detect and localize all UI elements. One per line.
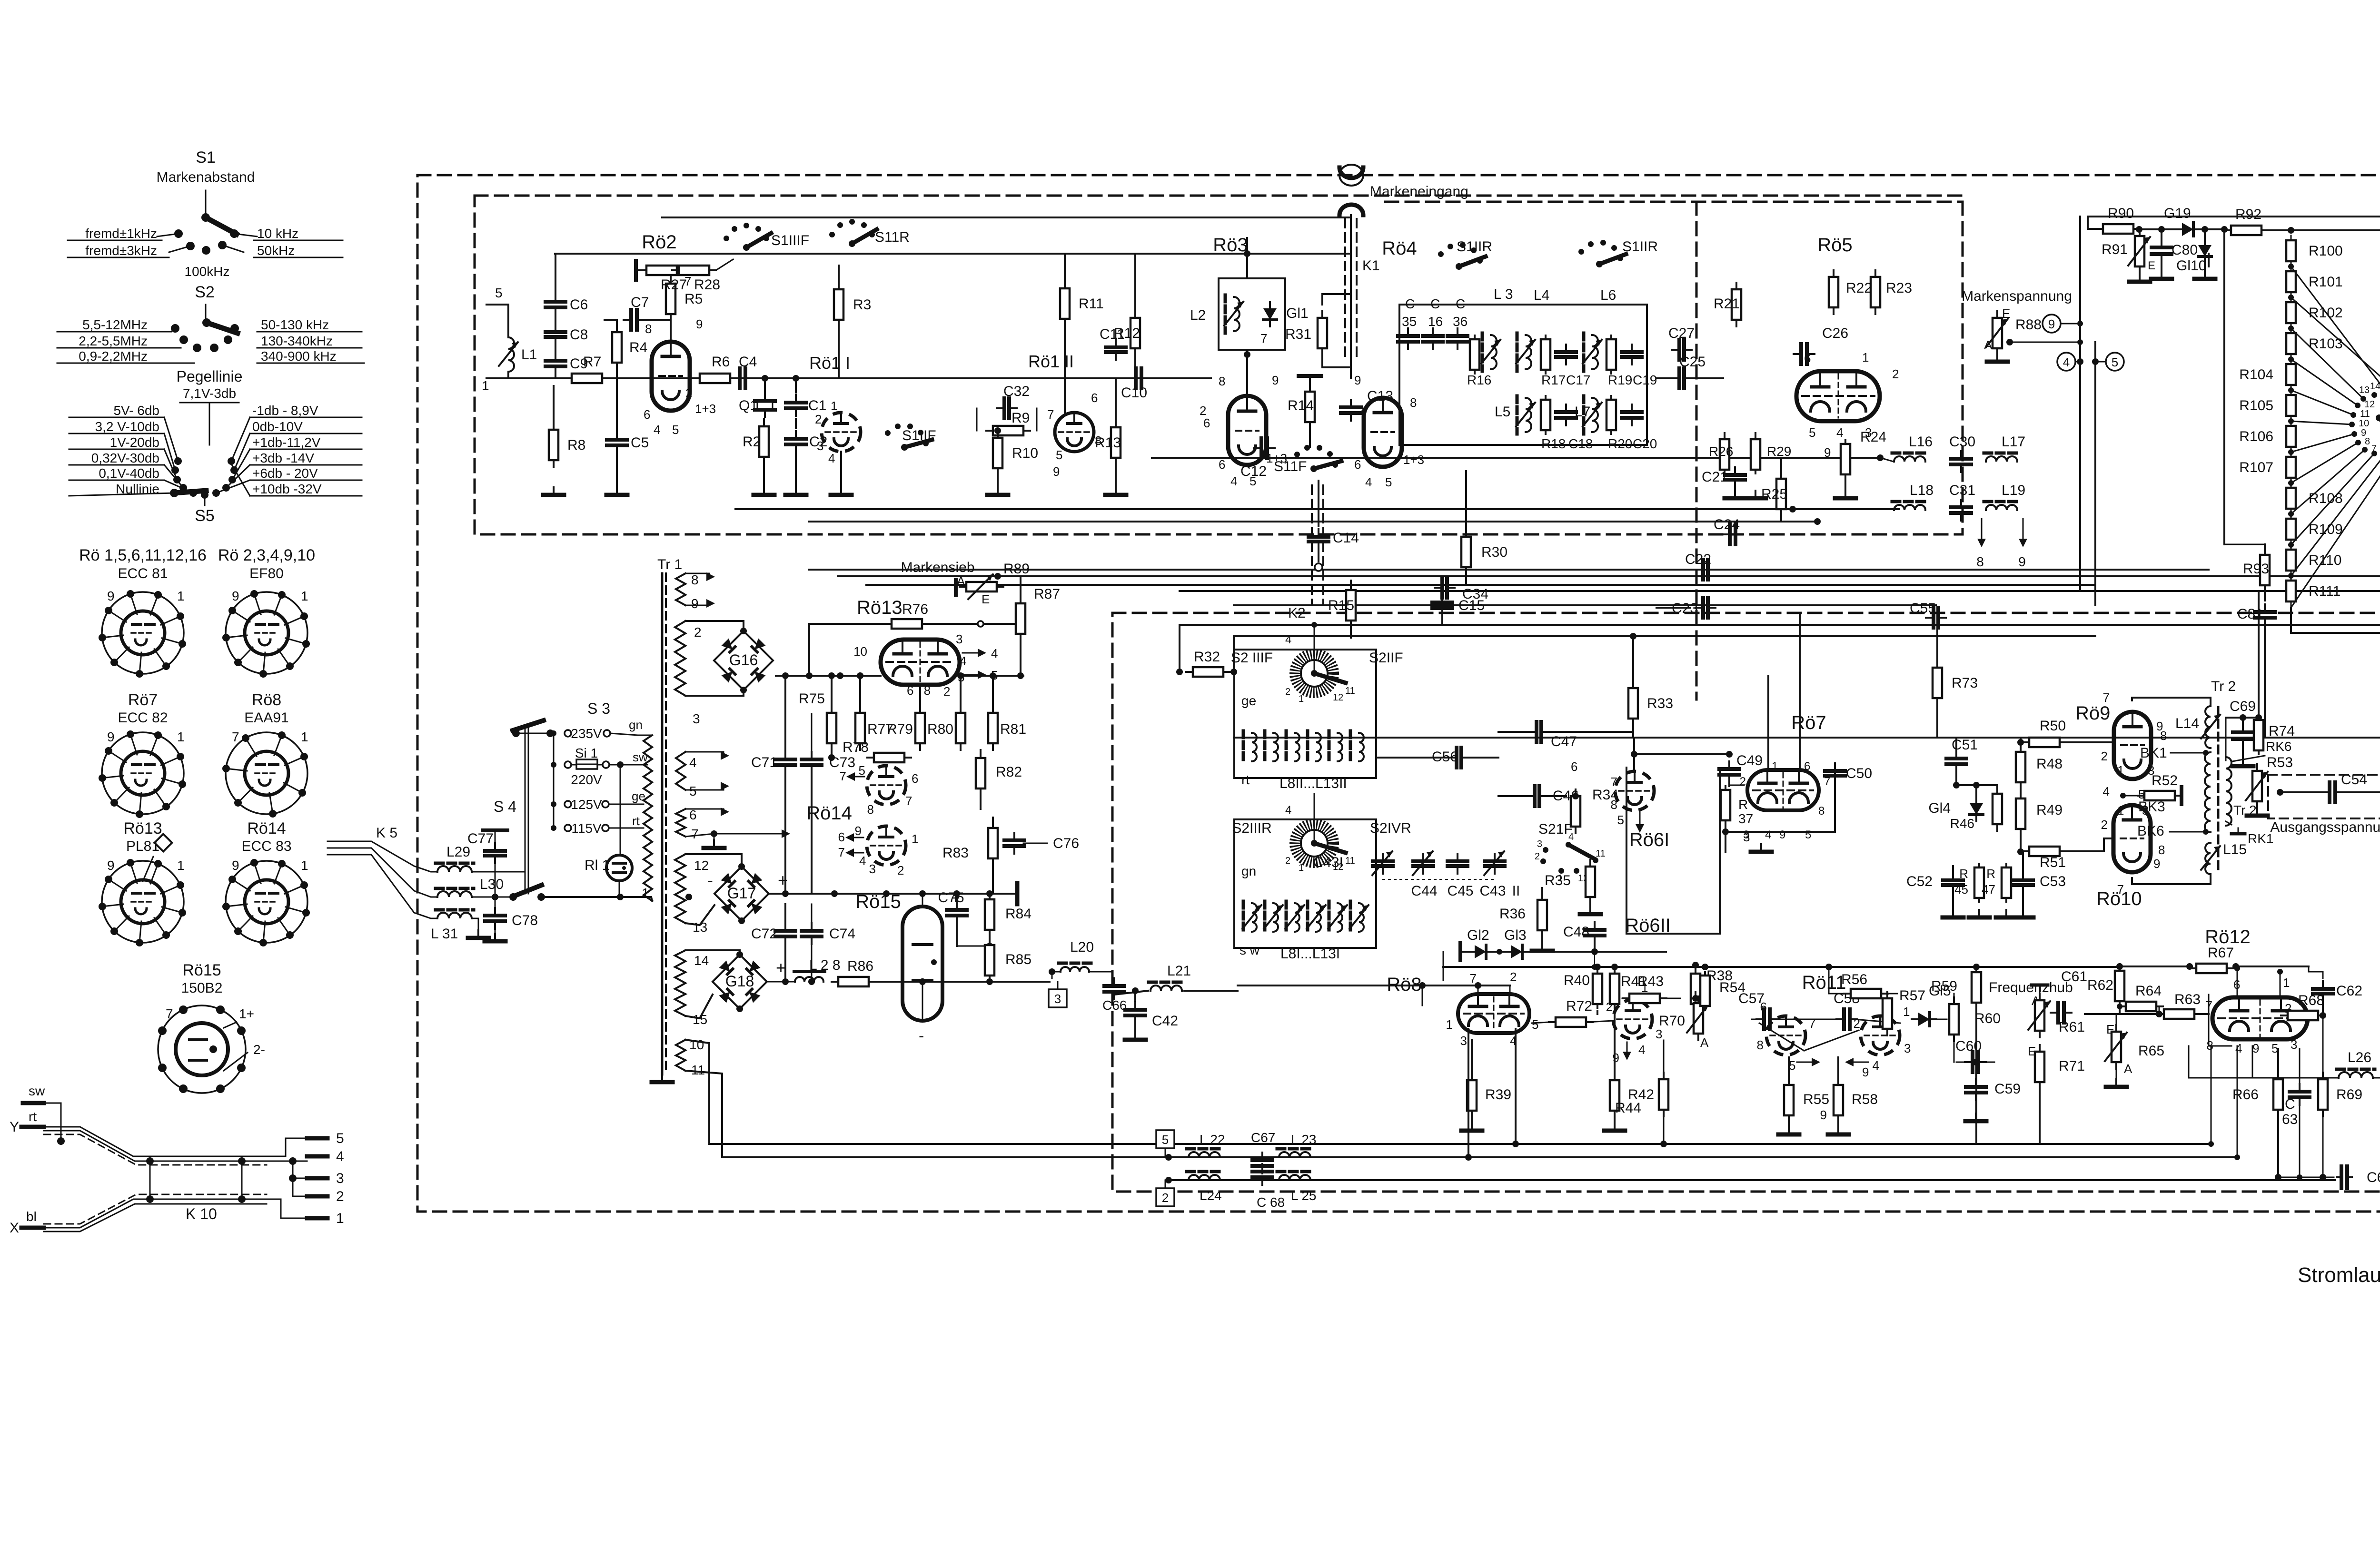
svg-text:Rö1 II: Rö1 II [1028, 352, 1074, 371]
svg-text:7: 7 [2103, 690, 2110, 705]
svg-text:9: 9 [1820, 1108, 1827, 1122]
bus wire y1096 [809, 521, 1817, 522]
svg-text:R71: R71 [2059, 1058, 2085, 1074]
capacitor C50 [1825, 769, 1845, 773]
svg-text:fremd±3kHz: fremd±3kHz [85, 243, 157, 258]
svg-text:R64: R64 [2135, 983, 2162, 999]
tube Ro2 [652, 342, 690, 411]
resistor R92 [2231, 226, 2261, 235]
svg-text:5,5-12MHz: 5,5-12MHz [82, 317, 148, 332]
svg-text:R15: R15 [1328, 598, 1354, 613]
capacitor C69 [2233, 730, 2253, 734]
svg-text:4: 4 [1365, 475, 1372, 489]
svg-text:1+: 1+ [239, 1006, 254, 1021]
svg-text:L 3: L 3 [1494, 286, 1513, 302]
svg-text:5: 5 [2112, 355, 2118, 369]
resistor R34 [1571, 796, 1580, 827]
svg-text:Rö14: Rö14 [247, 819, 286, 838]
bus wire top y533 [555, 253, 1351, 255]
capacitor C66 [1104, 984, 1124, 988]
resistor R84 [985, 899, 994, 930]
svg-text:8: 8 [645, 322, 652, 336]
svg-text:Gl3: Gl3 [1504, 927, 1527, 943]
svg-text:3,2 V-10db: 3,2 V-10db [95, 419, 159, 434]
K10 fanout wires [242, 1138, 307, 1156]
capacitor C26 [1799, 344, 1803, 364]
svg-text:5: 5 [495, 286, 503, 300]
svg-text:C50: C50 [1846, 766, 1872, 781]
svg-text:R32: R32 [1194, 649, 1220, 665]
svg-text:9: 9 [1354, 373, 1361, 387]
svg-text:Rö7: Rö7 [1791, 712, 1826, 733]
svg-text:fremd±1kHz: fremd±1kHz [85, 226, 157, 241]
svg-text:EF80: EF80 [249, 566, 284, 581]
diode Gl3 [1511, 945, 1522, 958]
Tr2 middle winding [2205, 752, 2211, 832]
svg-text:6: 6 [907, 683, 913, 698]
svg-text:2: 2 [815, 412, 822, 426]
svg-text:C47: C47 [1551, 734, 1577, 749]
svg-text:R60: R60 [1974, 1011, 2001, 1026]
svg-text:9: 9 [696, 317, 703, 331]
resistor R23 [1871, 277, 1880, 307]
tube Ro12 [2212, 997, 2308, 1039]
bus wire y2404 [709, 1143, 2211, 1145]
R88 wiper wire [2006, 339, 2013, 345]
svg-text:115V: 115V [571, 821, 602, 836]
svg-text:K 10: K 10 [186, 1205, 217, 1222]
svg-text:4: 4 [2235, 1041, 2242, 1055]
Tr1 winding 14-15 [675, 950, 685, 1016]
Ro6 I cathode arrow [1639, 811, 1641, 827]
svg-text:2: 2 [943, 684, 950, 699]
svg-text:S1IIF: S1IIF [902, 428, 936, 443]
svg-text:R61: R61 [2059, 1019, 2085, 1035]
svg-text:E: E [2148, 259, 2155, 272]
capacitor C9 [545, 359, 565, 363]
svg-text:C48: C48 [1563, 924, 1589, 940]
svg-text:C6: C6 [570, 297, 588, 313]
svg-text:C44: C44 [1411, 883, 1437, 899]
svg-text:1: 1 [301, 858, 308, 873]
svg-text:rt: rt [1241, 772, 1249, 787]
svg-text:L17: L17 [2002, 434, 2025, 450]
svg-text:50-130 kHz: 50-130 kHz [261, 317, 329, 332]
svg-text:X: X [10, 1220, 19, 1236]
svg-text:R87: R87 [1034, 586, 1060, 602]
svg-text:Rö2: Rö2 [642, 232, 676, 253]
svg-text:8: 8 [867, 802, 874, 817]
svg-text:R: R [1738, 797, 1748, 812]
resistor R57 [1883, 998, 1892, 1029]
Ro8 frame verticals [1468, 1029, 1469, 1157]
svg-text:Pegellinie: Pegellinie [177, 368, 243, 385]
svg-text:R16: R16 [1467, 373, 1491, 387]
svg-text:130-340kHz: 130-340kHz [261, 334, 333, 348]
svg-text:150B2: 150B2 [181, 980, 223, 996]
C43 gang dotted line [1383, 879, 1495, 880]
resistor R6 [700, 374, 730, 383]
svg-text:Tr 2: Tr 2 [2211, 679, 2236, 694]
diode Gl4 [1970, 803, 1983, 815]
resistor R82 [976, 758, 985, 788]
resistor R104 [2286, 364, 2296, 385]
svg-text:11: 11 [1596, 848, 1606, 859]
svg-text:10: 10 [689, 1037, 704, 1052]
trimmer C44 [1413, 859, 1433, 863]
diode Gl5 [1918, 1013, 1930, 1026]
svg-text:R12: R12 [1114, 325, 1140, 341]
resistor R40 [1593, 974, 1602, 1004]
svg-text:3: 3 [1656, 1027, 1662, 1041]
svg-text:C8: C8 [570, 327, 588, 343]
svg-text:3: 3 [1054, 992, 1061, 1006]
svg-text:1: 1 [2117, 763, 2124, 778]
Ro8 wire box [1422, 985, 1423, 1005]
svg-text:R23: R23 [1886, 280, 1912, 296]
svg-text:A: A [2124, 1062, 2132, 1076]
svg-text:2: 2 [1285, 687, 1290, 697]
upper dashed box right inner edge [1696, 202, 1698, 700]
tube Ro1 II triode [1055, 413, 1094, 452]
svg-text:4: 4 [654, 423, 660, 437]
svg-text:C24: C24 [1714, 517, 1740, 532]
svg-text:C72: C72 [751, 926, 777, 942]
svg-text:R63: R63 [2174, 992, 2201, 1007]
tube Ro14 upper triode [867, 766, 906, 805]
svg-text:C20: C20 [1633, 436, 1657, 451]
svg-text:R52: R52 [2152, 773, 2178, 788]
svg-text:S5: S5 [195, 507, 215, 525]
svg-text:R28: R28 [694, 277, 720, 293]
svg-text:1+3: 1+3 [1403, 453, 1424, 467]
svg-text:R101: R101 [2309, 274, 2343, 290]
capacitor C62 [2313, 987, 2333, 991]
svg-text:8: 8 [691, 572, 699, 587]
svg-text:C32: C32 [1003, 384, 1030, 399]
svg-text:5: 5 [1809, 425, 1815, 440]
svg-text:340-900 kHz: 340-900 kHz [261, 349, 337, 364]
svg-text:C21: C21 [1702, 469, 1728, 485]
svg-text:Rö1 I: Rö1 I [809, 353, 850, 373]
svg-text:220V: 220V [571, 772, 602, 787]
Tr1 winding 2-3 [675, 621, 685, 696]
svg-text:C31: C31 [1949, 483, 1975, 498]
svg-text:R76: R76 [902, 601, 928, 617]
svg-text:4: 4 [859, 854, 866, 868]
svg-text:ge: ge [1241, 693, 1256, 708]
svg-text:10: 10 [853, 644, 867, 659]
svg-text:Gl4: Gl4 [1928, 800, 1951, 816]
svg-text:R104: R104 [2239, 367, 2273, 383]
svg-text:Rö12: Rö12 [2205, 926, 2251, 947]
upper dashed box Markengeber section [475, 196, 1963, 534]
switch S1IIIF upper [724, 236, 729, 241]
svg-text:1V-20db: 1V-20db [110, 435, 159, 450]
ground under R8 [553, 487, 555, 495]
svg-text:3: 3 [869, 862, 876, 876]
svg-text:C19: C19 [1633, 373, 1657, 387]
resistor R83 [988, 828, 998, 858]
capacitor C47 [1535, 722, 1538, 742]
capacitor C45 [1448, 859, 1468, 863]
svg-text:A: A [1984, 338, 1993, 352]
svg-text:R90: R90 [2108, 206, 2134, 221]
svg-text:7: 7 [1260, 331, 1267, 345]
heater ground [711, 830, 717, 837]
svg-text:S 4: S 4 [494, 798, 516, 815]
svg-text:1: 1 [177, 589, 185, 603]
bus wire y1197 [809, 569, 2209, 571]
capacitor C42 [1125, 1008, 1145, 1012]
coil bank upper coils [1252, 733, 1257, 761]
svg-text:7: 7 [166, 1006, 173, 1021]
svg-text:R48: R48 [2036, 756, 2063, 772]
svg-text:5: 5 [689, 784, 697, 798]
svg-text:9: 9 [107, 589, 115, 603]
svg-text:100kHz: 100kHz [185, 264, 230, 279]
bus G17 plus [770, 893, 1017, 895]
capacitor C7 [629, 310, 633, 330]
svg-text:Gl10: Gl10 [2176, 258, 2206, 274]
resistor R38 [1691, 974, 1700, 1004]
rotary switch S2IIIR [1295, 824, 1333, 862]
svg-text:Frequenzhub: Frequenzhub [1989, 980, 2073, 995]
R33 top feed [1632, 636, 1634, 681]
capacitor C75 [947, 908, 967, 912]
capacitor C72 [775, 929, 795, 933]
bus wire y2432 [722, 1156, 2237, 1158]
tube Ro3 [1228, 396, 1266, 465]
svg-text:Gl2: Gl2 [1467, 927, 1489, 943]
capacitor C12 [1259, 438, 1263, 458]
svg-text:C53: C53 [2040, 874, 2066, 889]
resistor R64 [2126, 1002, 2156, 1011]
svg-text:Rö7: Rö7 [128, 691, 158, 709]
svg-text:L 25: L 25 [1291, 1188, 1316, 1203]
svg-text:8: 8 [1818, 805, 1825, 818]
wire Ro13 frame [776, 624, 809, 676]
crystal Q1 [755, 399, 775, 403]
rotary S2IIIR stem [1314, 794, 1315, 811]
svg-text:R73: R73 [1952, 675, 1978, 691]
svg-text:L8II...L13II: L8II...L13II [1279, 776, 1347, 791]
svg-text:Q1: Q1 [739, 398, 758, 414]
svg-text:R66: R66 [2232, 1087, 2259, 1103]
circled 5 [2106, 353, 2124, 371]
capacitor C31 [1951, 505, 1971, 509]
resistor R14 [1305, 392, 1315, 422]
svg-text:C10: C10 [1121, 385, 1147, 401]
svg-text:R70: R70 [1659, 1013, 1685, 1029]
coil L31 [437, 913, 472, 918]
svg-text:L24: L24 [1200, 1188, 1222, 1203]
svg-text:Markensieb: Markensieb [901, 560, 974, 575]
legend socket EAA91 [226, 732, 307, 814]
tube Ro6 I triode [1615, 771, 1654, 810]
svg-text:9: 9 [2018, 554, 2026, 569]
svg-text:5: 5 [672, 423, 679, 437]
svg-text:6: 6 [1354, 457, 1361, 472]
capacitor C49 [1719, 767, 1739, 771]
svg-text:R7: R7 [583, 354, 601, 370]
bus wire y1550 [1234, 737, 2380, 739]
tube Ro11 triode b [1861, 1016, 1900, 1055]
resistor R109 [2286, 519, 2296, 540]
svg-text:C18: C18 [1568, 436, 1593, 451]
resistor R10 [993, 438, 1002, 468]
resistor R44 [1659, 1079, 1668, 1110]
bus wire y1242 [1180, 590, 2380, 592]
svg-text:63: 63 [2282, 1112, 2298, 1127]
Ro11 cross coupling [1775, 1019, 1839, 1020]
circled 4 [2057, 353, 2075, 371]
svg-text:15: 15 [693, 1012, 707, 1027]
svg-text:C4: C4 [739, 354, 757, 370]
resistor R58 [1834, 1085, 1843, 1115]
svg-text:R84: R84 [1005, 906, 1031, 922]
svg-text:2: 2 [1510, 970, 1517, 984]
rotary switch S2IIIF [1295, 654, 1333, 692]
svg-text:-1db - 8,9V: -1db - 8,9V [252, 403, 318, 418]
svg-text:G17: G17 [727, 885, 756, 902]
svg-text:L26: L26 [2348, 1050, 2371, 1065]
svg-text:R: R [1986, 867, 1995, 881]
resistor R5 [666, 284, 675, 314]
svg-text:2,2-5,5MHz: 2,2-5,5MHz [79, 334, 148, 348]
svg-text:C: C [1430, 296, 1440, 311]
svg-text:Markenabstand: Markenabstand [157, 169, 255, 185]
bus y2032 top of Ro8 row [1443, 966, 2120, 968]
svg-text:1: 1 [301, 589, 308, 603]
upper dashed box inner top edge [1385, 201, 1963, 203]
bridge G18 [713, 955, 767, 1009]
cable K1 shield [1344, 219, 1346, 362]
svg-text:5: 5 [1162, 1133, 1169, 1147]
svg-text:3: 3 [1537, 839, 1542, 849]
svg-text:R4: R4 [629, 340, 647, 355]
svg-text:BK6: BK6 [2137, 823, 2164, 839]
svg-text:L2: L2 [1190, 307, 1206, 323]
switch S1 [205, 190, 207, 215]
svg-text:4: 4 [1765, 828, 1771, 841]
svg-text:C55: C55 [1910, 601, 1936, 616]
svg-text:R106: R106 [2239, 429, 2273, 444]
capacitor C48 [1585, 928, 1605, 932]
svg-text:5: 5 [1617, 813, 1624, 827]
ground under R2 [763, 487, 765, 495]
ladder top wire [2291, 229, 2380, 231]
resistor R15 [1346, 590, 1356, 621]
resistor R16 [1470, 339, 1479, 370]
Tr2 secondary winding [2226, 757, 2231, 826]
capacitor C64 [2340, 1166, 2343, 1188]
resistor R36 [1537, 900, 1547, 930]
capacitor C10 [1134, 368, 1138, 388]
svg-text:9: 9 [1779, 828, 1785, 841]
svg-text:C59: C59 [1994, 1081, 2021, 1097]
resistor R39 [1467, 1080, 1477, 1111]
svg-text:C 68: C 68 [1257, 1195, 1285, 1210]
svg-text:L4: L4 [1534, 287, 1549, 303]
svg-text:2: 2 [1892, 367, 1899, 381]
svg-text:bl: bl [26, 1209, 37, 1224]
svg-text:4: 4 [1285, 633, 1291, 646]
svg-text:7: 7 [1611, 775, 1617, 789]
resistor R12 [1130, 318, 1140, 348]
tube Ro8 [1458, 994, 1529, 1033]
svg-text:R68: R68 [2298, 993, 2324, 1008]
svg-text:-: - [707, 870, 713, 890]
K10 X cable run [44, 1199, 267, 1228]
Gl2 Gl3 row to C48 vertical [1594, 952, 1595, 967]
resistor R49 [2016, 798, 2025, 829]
svg-text:PL81: PL81 [126, 838, 159, 854]
svg-text:2: 2 [2101, 749, 2108, 763]
ground under C5 [616, 487, 618, 495]
svg-text:6: 6 [1091, 391, 1098, 405]
tube Ro14 lower triode [867, 826, 906, 865]
svg-text:13: 13 [693, 920, 707, 935]
resistor R71 [2035, 1052, 2044, 1082]
resistor R54 [1700, 976, 1710, 1006]
svg-text:9: 9 [107, 729, 115, 744]
svg-text:7: 7 [691, 827, 699, 841]
svg-text:1: 1 [2283, 976, 2290, 990]
bus wire y1229 [866, 584, 2094, 586]
resistor R100 [2286, 240, 2296, 261]
capacitor C13 [1341, 405, 1361, 409]
switch S1IIR left [1438, 251, 1444, 257]
ground under R24 [1844, 491, 1846, 498]
Ro11a cathode arrow [1797, 1062, 1815, 1063]
capacitor C54 [2328, 782, 2331, 802]
switch S1IIF lower [885, 430, 891, 436]
resistor R21 [1732, 289, 1741, 320]
svg-text:Y: Y [10, 1119, 19, 1135]
tube Ro7 [1747, 770, 1819, 810]
svg-text:6: 6 [912, 771, 918, 786]
R44 to bus [1660, 1141, 1667, 1147]
capacitor C27 [1677, 340, 1681, 360]
capacitor C76 [1004, 838, 1024, 842]
svg-text:C67: C67 [1251, 1130, 1275, 1145]
svg-text:S1IIR: S1IIR [1622, 239, 1658, 255]
svg-text:+: + [776, 958, 786, 977]
resistor R63 [2164, 1009, 2194, 1019]
resistor R19 [1606, 339, 1616, 370]
resistor R62 [2115, 971, 2124, 1001]
svg-text:R62: R62 [2087, 977, 2113, 993]
svg-text:R18: R18 [1541, 436, 1566, 451]
top node wire [2226, 717, 2259, 719]
resistor R85 [985, 945, 994, 976]
svg-text:C43: C43 [1479, 883, 1506, 899]
resistor R52 [2144, 791, 2175, 800]
resistor R3 [834, 289, 843, 320]
svg-text:R69: R69 [2336, 1087, 2362, 1103]
capacitor C6 [545, 300, 565, 304]
Ro12 wire box [2209, 995, 2231, 1046]
svg-text:C74: C74 [829, 926, 855, 942]
svg-text:L5: L5 [1495, 404, 1510, 420]
bus y455 top right [2088, 216, 2380, 217]
resistor R59 [1972, 972, 1981, 1003]
svg-text:Gl5: Gl5 [1929, 983, 1951, 999]
svg-text:L 31: L 31 [431, 926, 458, 942]
resistor R17 [1541, 339, 1550, 370]
svg-text:11: 11 [691, 1063, 705, 1077]
